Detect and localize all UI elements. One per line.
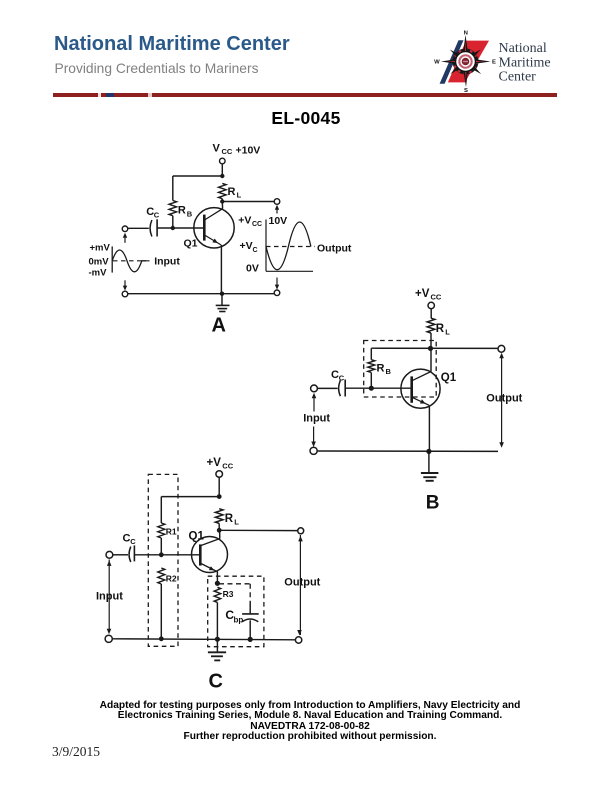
svg-text:Output: Output bbox=[284, 576, 320, 588]
svg-text:+mV: +mV bbox=[90, 243, 111, 254]
svg-text:B: B bbox=[426, 493, 440, 514]
svg-text:+V: +V bbox=[238, 214, 251, 226]
svg-text:C: C bbox=[253, 247, 258, 254]
svg-text:W: W bbox=[434, 60, 440, 66]
svg-text:V: V bbox=[213, 143, 221, 155]
svg-text:C: C bbox=[130, 537, 136, 546]
svg-text:+10V: +10V bbox=[236, 145, 261, 157]
svg-text:R: R bbox=[225, 513, 234, 525]
svg-text:CC: CC bbox=[222, 461, 233, 470]
svg-text:L: L bbox=[234, 517, 239, 526]
svg-text:Input: Input bbox=[303, 413, 330, 425]
svg-text:Maritime: Maritime bbox=[499, 55, 551, 70]
svg-text:C: C bbox=[154, 211, 160, 220]
svg-text:B: B bbox=[386, 367, 392, 376]
svg-text:R1: R1 bbox=[166, 526, 177, 536]
svg-text:Output: Output bbox=[317, 243, 352, 255]
svg-text:CC: CC bbox=[252, 221, 262, 228]
svg-text:0mV: 0mV bbox=[89, 256, 110, 267]
svg-text:CC: CC bbox=[431, 293, 442, 302]
svg-text:R: R bbox=[377, 363, 385, 375]
svg-text:Output: Output bbox=[486, 392, 522, 404]
svg-text:C: C bbox=[339, 373, 345, 382]
svg-text:R: R bbox=[178, 205, 186, 217]
svg-text:+V: +V bbox=[415, 288, 430, 300]
svg-text:+V: +V bbox=[240, 240, 253, 252]
svg-text:bp: bp bbox=[234, 615, 244, 624]
svg-text:Q1: Q1 bbox=[441, 372, 457, 384]
svg-text:Input: Input bbox=[154, 256, 180, 268]
svg-text:10V: 10V bbox=[269, 215, 288, 227]
svg-text:Q1: Q1 bbox=[189, 531, 205, 543]
svg-text:0V: 0V bbox=[246, 262, 259, 274]
svg-text:Center: Center bbox=[499, 70, 537, 85]
svg-text:B: B bbox=[187, 209, 193, 218]
svg-text:Input: Input bbox=[96, 591, 123, 603]
svg-text:+V: +V bbox=[207, 457, 222, 469]
svg-text:R2: R2 bbox=[166, 573, 177, 583]
svg-text:National: National bbox=[499, 41, 547, 56]
svg-text:Q1: Q1 bbox=[184, 238, 198, 250]
svg-text:CC: CC bbox=[222, 147, 233, 156]
svg-text:S: S bbox=[464, 88, 468, 94]
svg-text:C: C bbox=[331, 369, 339, 381]
svg-text:-mV: -mV bbox=[89, 268, 108, 279]
svg-text:L: L bbox=[237, 191, 242, 200]
svg-text:R: R bbox=[228, 186, 236, 198]
svg-text:C: C bbox=[123, 532, 131, 544]
svg-text:N: N bbox=[464, 30, 468, 36]
svg-text:A: A bbox=[212, 314, 226, 336]
svg-text:R: R bbox=[436, 323, 445, 335]
svg-text:C: C bbox=[209, 670, 223, 692]
svg-text:L: L bbox=[445, 328, 450, 337]
svg-text:R3: R3 bbox=[223, 589, 234, 599]
svg-text:E: E bbox=[492, 60, 496, 66]
